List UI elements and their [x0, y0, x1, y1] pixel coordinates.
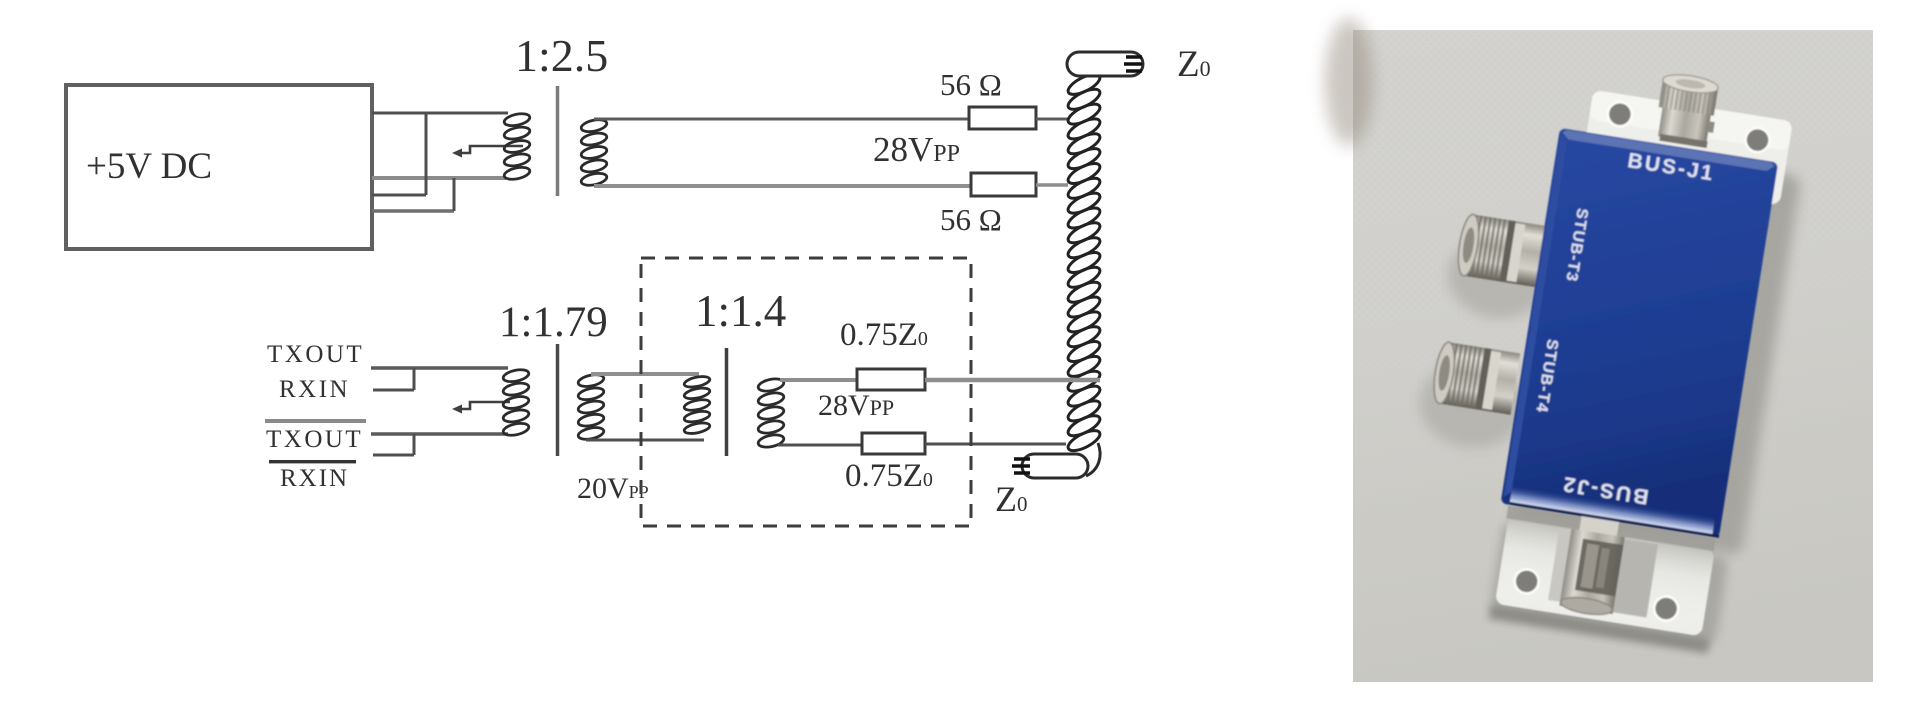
- svg-text:TXOUT: TXOUT: [266, 426, 363, 453]
- svg-text:1:1.79: 1:1.79: [499, 299, 608, 346]
- svg-text:0.75Z0: 0.75Z0: [845, 458, 933, 494]
- svg-text:56 Ω: 56 Ω: [940, 202, 1002, 237]
- svg-text:1:1.4: 1:1.4: [695, 286, 786, 336]
- svg-text:1:2.5: 1:2.5: [515, 30, 608, 81]
- svg-text:+5V DC: +5V DC: [86, 146, 212, 187]
- svg-text:TXOUT: TXOUT: [267, 341, 364, 368]
- svg-text:RXIN: RXIN: [279, 376, 350, 403]
- svg-text:56 Ω: 56 Ω: [940, 67, 1002, 102]
- svg-text:RXIN: RXIN: [280, 465, 349, 492]
- svg-text:0.75Z0: 0.75Z0: [840, 317, 928, 353]
